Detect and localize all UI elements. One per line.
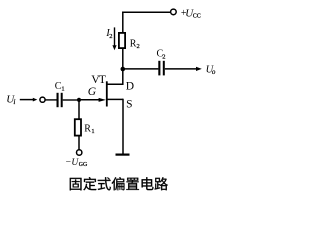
terminal +UCC — [171, 9, 177, 15]
label C1 — [55, 81, 65, 92]
label R2 — [130, 38, 140, 50]
label -UGG — [66, 158, 88, 168]
wire gate — [81, 98, 106, 102]
wire node to C2 — [124, 68, 159, 70]
label I2 — [105, 28, 112, 40]
svg-text:2: 2 — [137, 43, 140, 50]
caption 固定式偏置电路 — [70, 177, 168, 190]
label Uo — [206, 65, 216, 77]
capacitor C2 — [158, 61, 165, 76]
source lead — [108, 99, 124, 154]
wire C2 to output — [165, 67, 202, 71]
label +UCC — [181, 7, 201, 19]
svg-text:−U: −U — [66, 158, 80, 168]
current arrow I2 — [112, 27, 116, 50]
node drain junction — [121, 67, 126, 72]
wire input to C1 — [45, 99, 56, 101]
label C2 — [157, 49, 166, 61]
svg-text:2: 2 — [109, 33, 112, 40]
svg-text:S: S — [126, 99, 132, 111]
resistor R2 — [119, 33, 125, 48]
wire rail to R2 — [122, 12, 124, 34]
wire R2 to drain node — [122, 48, 124, 69]
svg-text:2: 2 — [162, 53, 165, 60]
wire R1 to terminal — [78, 136, 80, 150]
input arrow — [20, 98, 38, 102]
terminal -UGG — [77, 150, 82, 155]
wire top rail — [122, 11, 170, 13]
node gate junction — [77, 98, 81, 102]
svg-text:G: G — [88, 86, 97, 98]
input terminal — [40, 97, 45, 102]
svg-text:CC: CC — [193, 14, 201, 20]
label R1 — [84, 123, 94, 134]
svg-text:o: o — [212, 68, 216, 76]
resistor R1 — [75, 119, 81, 135]
svg-text:i: i — [13, 97, 15, 106]
transistor VT channel bar — [106, 81, 108, 106]
svg-text:GG: GG — [79, 162, 88, 168]
svg-text:R: R — [84, 123, 91, 134]
input label Ui — [6, 93, 15, 106]
svg-text:D: D — [126, 81, 134, 93]
ground — [116, 154, 130, 156]
svg-text:1: 1 — [91, 128, 94, 135]
svg-text:VT: VT — [91, 72, 106, 86]
svg-text:1: 1 — [61, 85, 64, 92]
wire gate node to R1 — [78, 101, 80, 120]
capacitor C1 — [57, 93, 63, 107]
drain lead — [107, 68, 123, 85]
wire C1 to gate node — [63, 99, 77, 101]
